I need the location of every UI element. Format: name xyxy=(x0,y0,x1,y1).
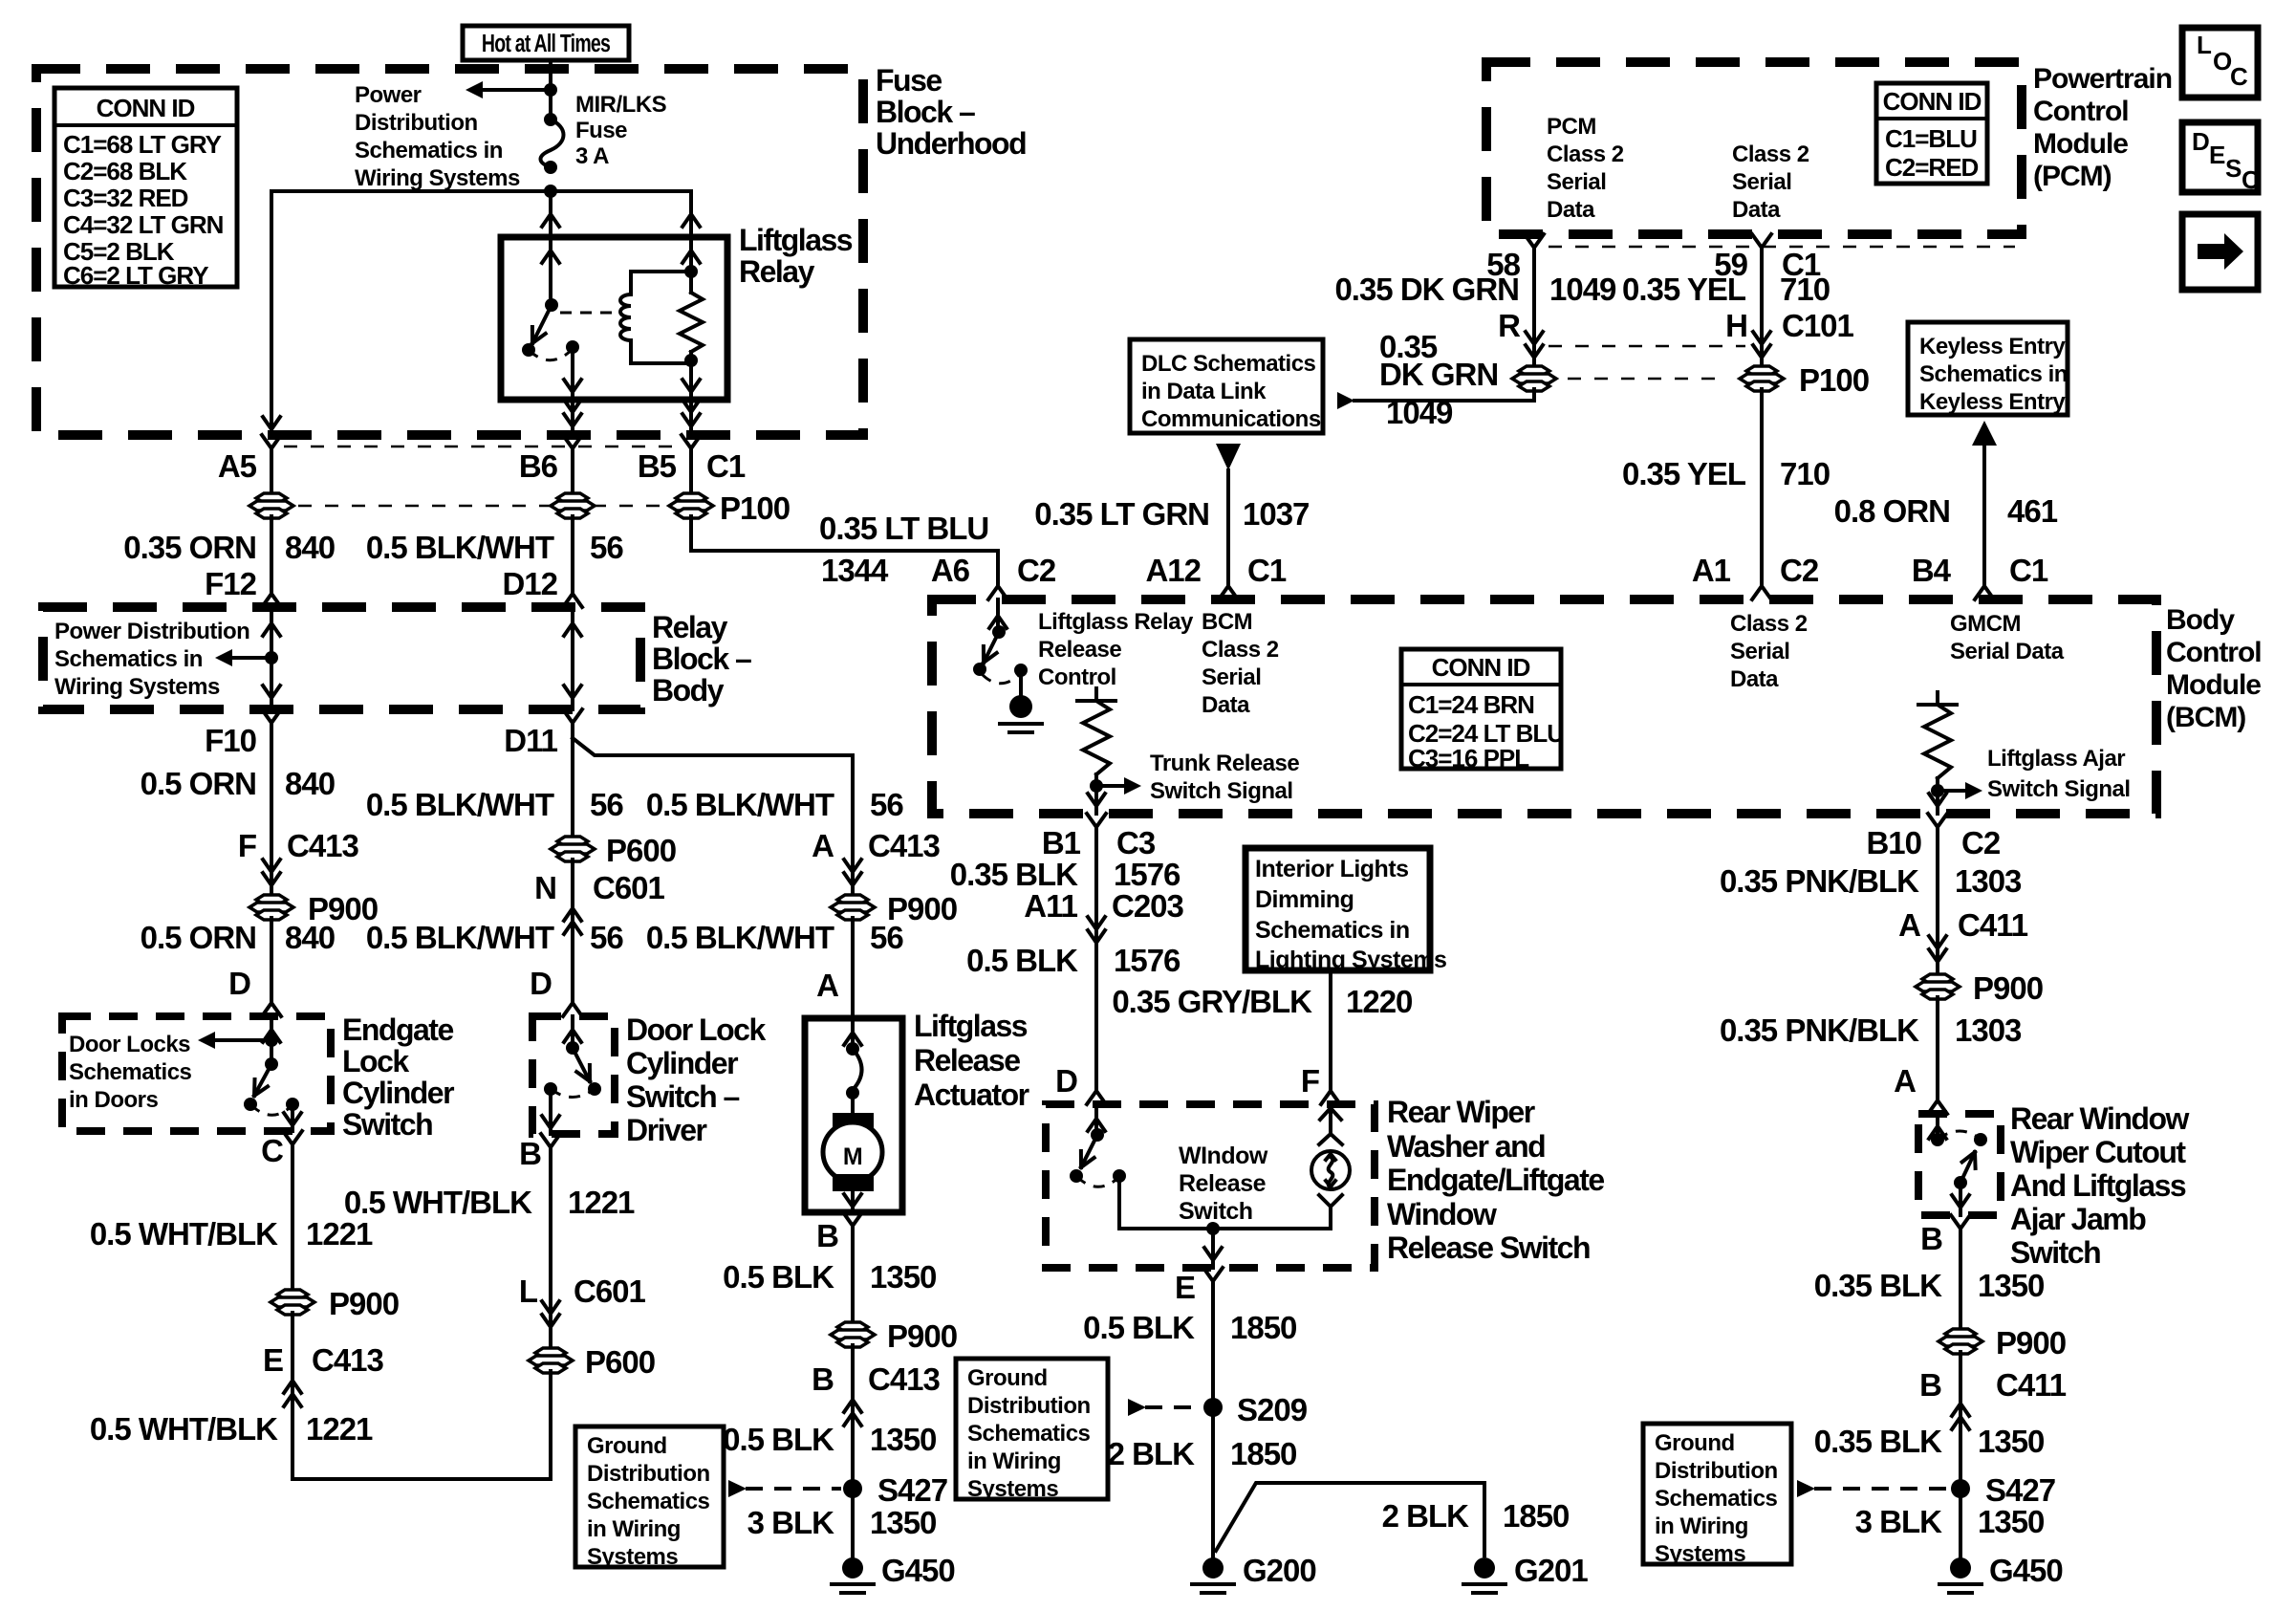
wire: P900 to jamb switch pin A xyxy=(1936,997,1939,1085)
svg-text:Block –: Block – xyxy=(652,642,751,676)
svg-text:Wiring Systems: Wiring Systems xyxy=(355,165,520,191)
module box: Powertrain Control Module PCM (dashed) xyxy=(1486,62,2022,234)
svg-text:1576: 1576 xyxy=(1114,857,1180,892)
svg-text:1221: 1221 xyxy=(306,1411,373,1447)
svg-text:P100: P100 xyxy=(720,490,790,526)
wire: P600 down to junction xyxy=(549,1371,552,1479)
svg-text:L: L xyxy=(2197,31,2212,59)
svg-text:0.5 BLK/WHT: 0.5 BLK/WHT xyxy=(366,920,554,955)
svg-text:C411: C411 xyxy=(1958,907,2028,943)
jamb switch dashed throw arc xyxy=(1938,1131,1979,1140)
svg-text:Data: Data xyxy=(1730,666,1779,692)
svg-text:A1: A1 xyxy=(1692,553,1731,588)
svg-text:1303: 1303 xyxy=(1955,1012,2022,1048)
svg-text:F12: F12 xyxy=(205,566,257,601)
motor M of liftglass release actuator xyxy=(851,1093,855,1113)
svg-text:Ajar Jamb: Ajar Jamb xyxy=(2010,1202,2146,1236)
svg-text:B4: B4 xyxy=(1912,553,1952,588)
wire: branch down to relay left pin xyxy=(549,191,552,234)
svg-text:3 A: 3 A xyxy=(575,143,609,169)
svg-text:A11: A11 xyxy=(1024,888,1077,924)
svg-text:Door Lock: Door Lock xyxy=(626,1012,766,1047)
svg-text:0.35 DK GRN: 0.35 DK GRN xyxy=(1334,272,1519,307)
pin F10 out of relay block xyxy=(262,709,281,738)
svg-text:C4=32 LT GRN: C4=32 LT GRN xyxy=(63,210,224,239)
svg-text:DLC Schematics: DLC Schematics xyxy=(1141,351,1316,377)
svg-text:Serial: Serial xyxy=(1202,664,1261,690)
wire: 0.35 LT BLU 1344 from P100 C1 to BCM A6 xyxy=(691,516,998,572)
svg-text:C2: C2 xyxy=(1017,553,1056,588)
svg-text:0.5 WHT/BLK: 0.5 WHT/BLK xyxy=(344,1185,532,1220)
svg-text:C2: C2 xyxy=(1780,553,1819,588)
relay internal resistor R xyxy=(689,237,693,272)
svg-text:CONN ID: CONN ID xyxy=(1432,653,1530,682)
svg-text:C413: C413 xyxy=(312,1342,384,1378)
svg-text:56: 56 xyxy=(870,787,903,822)
svg-text:Powertrain: Powertrain xyxy=(2033,63,2172,95)
pin 58 of PCM xyxy=(1525,234,1544,263)
svg-text:C1: C1 xyxy=(2009,553,2048,588)
svg-text:Switch Signal: Switch Signal xyxy=(1150,778,1293,804)
svg-text:G450: G450 xyxy=(881,1553,955,1588)
svg-text:B6: B6 xyxy=(519,448,558,484)
svg-text:Liftglass: Liftglass xyxy=(739,223,853,257)
svg-text:1350: 1350 xyxy=(870,1422,936,1457)
pin D into door lock cylinder switch driver xyxy=(563,988,582,1016)
wire: endgate C to P900 xyxy=(291,1160,294,1292)
wire: D12-D11 through relay block xyxy=(571,607,574,709)
svg-text:1350: 1350 xyxy=(1978,1268,2044,1303)
svg-text:GMCM: GMCM xyxy=(1950,611,2021,637)
pin 59 / C1 of PCM xyxy=(1752,234,1771,263)
svg-text:Underhood: Underhood xyxy=(876,126,1026,161)
junction box: Ground Distribution Schematics (right) xyxy=(1643,1424,1791,1564)
svg-text:Endgate: Endgate xyxy=(342,1012,453,1047)
svg-text:C413: C413 xyxy=(868,1361,941,1397)
svg-text:P900: P900 xyxy=(1996,1325,2066,1361)
wire: D11 to P600 xyxy=(571,738,574,838)
svg-text:C601: C601 xyxy=(593,870,665,905)
wire: B10 to P900 xyxy=(1936,842,1939,976)
relay coil L xyxy=(631,272,691,363)
actuator internal feed xyxy=(851,1018,855,1046)
driver switch movable arm xyxy=(576,1072,590,1081)
wire: blk/wht 56 down to relay block D12 xyxy=(571,516,574,593)
svg-text:0.5 BLK: 0.5 BLK xyxy=(1083,1310,1195,1345)
wire: into endgate switch xyxy=(270,1016,273,1064)
wire: switch output to junction and lamp branch xyxy=(1119,1176,1331,1229)
module box: Body Control Module BCM (dashed) xyxy=(932,599,2156,814)
BCM switch right contact xyxy=(1014,664,1028,677)
svg-text:1350: 1350 xyxy=(870,1259,936,1295)
switch box: Door Lock Cylinder Switch - Driver (dashed) xyxy=(532,1016,615,1134)
svg-text:Schematics: Schematics xyxy=(69,1059,192,1085)
pin A12 into BCM xyxy=(1219,571,1238,599)
svg-text:Door Locks: Door Locks xyxy=(69,1032,190,1057)
pin C out of endgate switch xyxy=(283,1131,302,1160)
ground G450 (left) xyxy=(842,1557,863,1578)
svg-text:L: L xyxy=(519,1274,538,1309)
svg-text:Serial: Serial xyxy=(1732,169,1791,195)
svg-text:0.35 BLK: 0.35 BLK xyxy=(1814,1424,1942,1459)
pin A1 into BCM xyxy=(1752,571,1771,599)
svg-text:Ground: Ground xyxy=(1655,1430,1735,1456)
svg-text:0.5 BLK: 0.5 BLK xyxy=(723,1422,834,1457)
wire: branch down to A5 xyxy=(270,191,273,432)
wire: BCM B4 up to keyless entry (0.8 ORN 461) xyxy=(1982,442,1986,572)
svg-text:Ground: Ground xyxy=(967,1365,1048,1391)
driver switch left contact to pin B xyxy=(544,1082,557,1096)
svg-text:B: B xyxy=(812,1361,834,1397)
svg-text:(PCM): (PCM) xyxy=(2033,161,2112,192)
wire: 0.35 DK GRN 1049 to DLC schematics xyxy=(1354,389,1534,401)
svg-text:0.35 PNK/BLK: 0.35 PNK/BLK xyxy=(1720,863,1919,899)
svg-text:Cylinder: Cylinder xyxy=(342,1076,454,1110)
svg-text:(BCM): (BCM) xyxy=(2166,702,2245,733)
svg-text:0.5 BLK/WHT: 0.5 BLK/WHT xyxy=(366,787,554,822)
relay switch NC contact xyxy=(522,343,535,357)
svg-text:C413: C413 xyxy=(287,828,359,863)
svg-text:A5: A5 xyxy=(218,448,257,484)
fuse F: MIR/LKS Fuse 3A xyxy=(544,113,557,126)
svg-text:Washer and: Washer and xyxy=(1387,1129,1545,1164)
svg-text:Ground: Ground xyxy=(587,1433,667,1459)
svg-text:Serial: Serial xyxy=(1730,639,1789,664)
svg-text:56: 56 xyxy=(590,920,623,955)
svg-text:Data: Data xyxy=(1732,197,1781,223)
table: CONN ID (fuse block) xyxy=(54,88,237,287)
lamp branch of window release switch xyxy=(1319,1195,1342,1229)
svg-text:0.35 YEL: 0.35 YEL xyxy=(1622,456,1746,491)
svg-text:E: E xyxy=(2209,141,2225,169)
svg-text:Class 2: Class 2 xyxy=(1732,142,1809,167)
relay switch pivot xyxy=(545,298,558,312)
junction node on hot feed xyxy=(544,83,557,97)
junction box: Interior Lights Dimming Schematics in Lighting Systems xyxy=(1245,848,1430,970)
motor box: Liftglass Release Actuator xyxy=(805,1018,902,1212)
connector P900 (jamb ground) xyxy=(1945,1329,1976,1339)
svg-text:Module: Module xyxy=(2166,669,2261,701)
junction box: Ground Distribution Schematics (left) xyxy=(575,1426,724,1567)
svg-text:Keyless Entry: Keyless Entry xyxy=(1919,389,2066,415)
svg-text:C3: C3 xyxy=(1116,825,1156,860)
svg-text:S209: S209 xyxy=(1237,1392,1308,1427)
svg-text:Dimming: Dimming xyxy=(1255,886,1354,913)
svg-text:Distribution: Distribution xyxy=(1655,1458,1778,1484)
svg-text:Control: Control xyxy=(1038,664,1116,690)
svg-text:0.35 LT GRN: 0.35 LT GRN xyxy=(1034,496,1209,532)
svg-text:Systems: Systems xyxy=(587,1544,678,1570)
svg-text:Distribution: Distribution xyxy=(355,110,478,136)
jamb switch pivot xyxy=(1954,1176,1967,1189)
ground G201 xyxy=(1474,1557,1495,1578)
connector face C1 of underhood fuse block (dashed) xyxy=(284,446,679,448)
svg-text:C3=16 PPL: C3=16 PPL xyxy=(1408,744,1529,773)
svg-text:1037: 1037 xyxy=(1243,496,1309,532)
svg-text:2 BLK: 2 BLK xyxy=(1108,1436,1196,1471)
svg-text:Liftglass Ajar: Liftglass Ajar xyxy=(1987,746,2125,772)
module box: Relay Block - Body (dashed) xyxy=(43,607,640,709)
svg-text:BCM: BCM xyxy=(1202,609,1252,635)
BCM internal: liftglass relay release control switch xyxy=(996,599,1000,632)
svg-text:1350: 1350 xyxy=(870,1505,936,1540)
pin B1 / C3 out of BCM xyxy=(1087,814,1106,842)
svg-text:Keyless Entry: Keyless Entry xyxy=(1919,334,2066,359)
wire: junction down to pin E xyxy=(1211,1229,1215,1268)
wire: to P900 (actuator) xyxy=(851,755,855,897)
svg-text:Schematics: Schematics xyxy=(587,1489,710,1514)
junction in window release switch xyxy=(1206,1222,1220,1235)
wire: P600 to door lock cylinder switch driver xyxy=(571,860,574,1002)
connector P600 xyxy=(557,837,588,846)
wire: P900 to S427 (right) xyxy=(1959,1352,1962,1566)
pin A5 xyxy=(262,435,281,464)
svg-text:A: A xyxy=(1894,1063,1916,1099)
pass-through connector face dashed line at P100 row xyxy=(271,505,691,508)
svg-text:0.5 WHT/BLK: 0.5 WHT/BLK xyxy=(90,1411,278,1447)
svg-text:CONN ID: CONN ID xyxy=(97,94,195,122)
PCM connector face dashed line xyxy=(1549,246,2015,249)
svg-text:P900: P900 xyxy=(329,1286,399,1321)
wire: resistor down to BCM pin B10 xyxy=(1936,791,1939,814)
svg-text:Module: Module xyxy=(2033,128,2128,160)
svg-text:Relay: Relay xyxy=(739,254,815,289)
driver switch pivot xyxy=(566,1041,579,1055)
wire: orange 840 down to relay block F12 xyxy=(270,516,273,593)
pin B4 into BCM xyxy=(1975,571,1994,599)
table: CONN ID (PCM) xyxy=(1876,83,1987,184)
svg-text:0.5 BLK: 0.5 BLK xyxy=(723,1259,834,1295)
wire: relay NO contact to output xyxy=(571,347,574,400)
endgate switch movable arm xyxy=(252,1079,257,1096)
svg-text:Systems: Systems xyxy=(1655,1541,1745,1567)
jamb switch movable arm xyxy=(1973,1152,1978,1168)
svg-text:0.5 BLK: 0.5 BLK xyxy=(966,943,1078,978)
window release switch left contact xyxy=(1070,1169,1083,1183)
pin D12 into relay block xyxy=(563,578,582,607)
wire: relay coil output to B5 xyxy=(689,400,693,432)
relay switch dashed throw arc xyxy=(529,349,573,360)
svg-text:C6=2 LT GRY: C6=2 LT GRY xyxy=(63,261,208,290)
wire into driver switch xyxy=(571,1016,574,1048)
svg-text:56: 56 xyxy=(870,920,903,955)
svg-text:Class 2: Class 2 xyxy=(1730,611,1808,637)
svg-text:Data: Data xyxy=(1202,692,1250,718)
svg-text:56: 56 xyxy=(590,787,623,822)
svg-text:G200: G200 xyxy=(1243,1553,1316,1588)
pin D11 out of relay block xyxy=(563,709,582,738)
svg-text:Class 2: Class 2 xyxy=(1547,142,1624,167)
svg-text:C411: C411 xyxy=(1996,1367,2067,1403)
wire: interior lights to wiper switch pin F (0.35 GRY/BLK 1220) xyxy=(1329,970,1332,1076)
wire: branch down to relay coil pin xyxy=(689,191,693,234)
jamb switch left contact xyxy=(1931,1133,1944,1146)
wire: arrow to power distribution schematics xyxy=(483,88,551,92)
connector P100 splice on blk/wht wire xyxy=(557,493,588,503)
svg-text:C2: C2 xyxy=(1961,825,2001,860)
svg-text:N: N xyxy=(534,870,556,905)
junction box: Keyless Entry Schematics in Keyless Entry xyxy=(1908,322,2068,415)
wire: P100 H down to BCM A1 (0.35 YEL 710) xyxy=(1760,389,1764,572)
connector P900 (liftglass ajar) xyxy=(1922,974,1953,984)
svg-text:F: F xyxy=(238,828,256,863)
wire: PCM 58 to C101 R xyxy=(1532,263,1536,368)
svg-text:C1=68 LT GRY: C1=68 LT GRY xyxy=(63,130,222,159)
svg-text:S427: S427 xyxy=(1985,1472,2055,1508)
svg-text:B1: B1 xyxy=(1042,825,1081,860)
wire: F10 to C413 pin F xyxy=(270,738,273,860)
svg-text:Rear Wiper: Rear Wiper xyxy=(1387,1095,1535,1129)
svg-text:Cylinder: Cylinder xyxy=(626,1046,738,1080)
svg-text:C2=68 BLK: C2=68 BLK xyxy=(63,157,187,185)
svg-text:in Doors: in Doors xyxy=(69,1087,158,1113)
wire: DLC box to BCM A12 (0.35 LT GRN 1037) xyxy=(1216,444,1241,470)
svg-text:C1=24 BRN: C1=24 BRN xyxy=(1408,690,1534,719)
svg-text:Fuse: Fuse xyxy=(575,118,627,143)
svg-text:1350: 1350 xyxy=(1978,1504,2044,1539)
endgate switch left contact xyxy=(244,1098,257,1111)
svg-text:Schematics in: Schematics in xyxy=(1255,917,1410,944)
connector P100 splice on lt blu wire xyxy=(676,493,706,503)
svg-text:Endgate/Liftgate: Endgate/Liftgate xyxy=(1387,1163,1604,1197)
endgate switch dashed throw arc xyxy=(250,1104,292,1115)
svg-text:0.5 BLK/WHT: 0.5 BLK/WHT xyxy=(366,530,554,565)
wire: B6 to P100 xyxy=(571,464,574,495)
BCM internal ground xyxy=(1019,670,1023,694)
table: CONN ID (BCM) xyxy=(1401,649,1561,769)
svg-text:B: B xyxy=(1920,1221,1942,1256)
window release switch pivot xyxy=(1091,1128,1104,1142)
wire: B5 to P100 xyxy=(689,464,693,495)
dashed ground distribution tap to S209 xyxy=(1145,1405,1201,1409)
svg-text:M: M xyxy=(843,1143,862,1170)
svg-text:D: D xyxy=(1055,1063,1077,1099)
wire: P900 to S427 xyxy=(851,1345,855,1566)
wire: hot feed from Hot at All Times into fuse block xyxy=(549,60,552,120)
connector face C101 dashed xyxy=(1549,345,1745,348)
svg-text:0.35 GRY/BLK: 0.35 GRY/BLK xyxy=(1112,984,1312,1019)
wire: P900 to endgate switch pin D xyxy=(270,918,273,1002)
wire: motor to actuator pin B xyxy=(851,1191,855,1212)
svg-text:A: A xyxy=(812,828,834,863)
svg-text:C2=RED: C2=RED xyxy=(1885,153,1979,182)
svg-text:E: E xyxy=(263,1342,283,1378)
svg-text:840: 840 xyxy=(285,920,335,955)
svg-text:0.35 BLK: 0.35 BLK xyxy=(950,857,1078,892)
BCM switch dashed throw arc xyxy=(982,674,1019,684)
svg-text:And Liftglass: And Liftglass xyxy=(2010,1168,2186,1203)
svg-text:C601: C601 xyxy=(574,1274,646,1309)
splice S427 (right) xyxy=(1951,1479,1970,1498)
svg-text:Release: Release xyxy=(1038,637,1121,663)
icon box: LOC xyxy=(2182,28,2258,98)
switch box: Rear Window Wiper Cutout And Liftglass Ajar Jamb Switch (dashed) xyxy=(1918,1114,2001,1215)
pin F12 into relay block xyxy=(262,578,281,607)
svg-text:Interior Lights: Interior Lights xyxy=(1255,856,1409,882)
svg-text:1221: 1221 xyxy=(568,1185,635,1220)
svg-text:D: D xyxy=(228,966,250,1001)
svg-text:Switch –: Switch – xyxy=(626,1079,740,1114)
connector P100 (H) xyxy=(1746,366,1777,376)
svg-text:MIR/LKS: MIR/LKS xyxy=(575,92,667,118)
svg-text:F: F xyxy=(1301,1063,1319,1099)
svg-text:A: A xyxy=(816,968,838,1003)
svg-text:P100: P100 xyxy=(1799,362,1869,398)
svg-text:Hot at All Times: Hot at All Times xyxy=(482,29,610,56)
wire: resistor down to BCM pin B1 xyxy=(1094,786,1098,814)
relay switch common feed xyxy=(549,237,552,305)
splice S427 (left) xyxy=(843,1479,862,1498)
svg-text:C: C xyxy=(261,1133,283,1168)
svg-text:Wiring Systems: Wiring Systems xyxy=(54,674,220,700)
svg-text:Schematics: Schematics xyxy=(1655,1486,1778,1512)
splice S209 xyxy=(1203,1398,1223,1417)
svg-text:E: E xyxy=(1175,1270,1195,1305)
svg-text:1220: 1220 xyxy=(1346,984,1412,1019)
svg-text:1303: 1303 xyxy=(1955,863,2022,899)
pin B6 xyxy=(563,435,582,464)
pin F into window release switch xyxy=(1321,1076,1340,1104)
wire: D11 fork to liftglass release actuator xyxy=(573,738,853,755)
connector P100 (R) xyxy=(1519,366,1549,376)
svg-text:P600: P600 xyxy=(585,1344,655,1380)
junction box: Ground Distribution Schematics (center) xyxy=(956,1359,1108,1499)
svg-text:P600: P600 xyxy=(606,833,676,868)
pin E out of window release switch xyxy=(1203,1268,1223,1296)
pin D into window release switch xyxy=(1087,1076,1106,1104)
svg-text:P900: P900 xyxy=(887,1318,957,1354)
svg-text:0.35 YEL: 0.35 YEL xyxy=(1622,272,1746,307)
svg-text:Liftglass: Liftglass xyxy=(914,1009,1028,1043)
svg-text:C1: C1 xyxy=(706,448,746,484)
svg-text:Schematics in: Schematics in xyxy=(1919,361,2068,387)
svg-text:Body: Body xyxy=(2166,604,2235,636)
svg-text:461: 461 xyxy=(2007,493,2058,529)
junction box: DLC Schematics in Data Link Communications xyxy=(1130,339,1323,433)
connector P100 splice on orange wire xyxy=(256,493,287,503)
icon box: DESC xyxy=(2182,122,2258,192)
svg-text:G201: G201 xyxy=(1514,1553,1588,1588)
svg-text:R: R xyxy=(1498,308,1521,343)
window release switch dashed throw arc xyxy=(1076,1176,1119,1186)
svg-text:in Data Link: in Data Link xyxy=(1141,379,1267,404)
svg-text:Rear Window: Rear Window xyxy=(2010,1101,2190,1136)
relay K: Liftglass Relay box xyxy=(501,237,727,400)
node: fuse output junction xyxy=(544,185,557,198)
svg-text:0.5 BLK/WHT: 0.5 BLK/WHT xyxy=(646,787,834,822)
svg-text:B5: B5 xyxy=(638,448,677,484)
wire: jamb switch pivot to pin B xyxy=(1959,1183,1962,1215)
svg-text:Schematics in: Schematics in xyxy=(355,138,503,163)
svg-text:in Wiring: in Wiring xyxy=(967,1448,1061,1474)
svg-text:Relay: Relay xyxy=(652,610,728,644)
svg-text:0.8 ORN: 0.8 ORN xyxy=(1834,493,1950,529)
pin A6 into BCM xyxy=(988,571,1007,599)
svg-text:56: 56 xyxy=(590,530,623,565)
wire: PCM 59 to C101 H xyxy=(1760,263,1764,368)
BCM internal resistor: trunk release switch signal xyxy=(1094,688,1098,701)
svg-text:1350: 1350 xyxy=(1978,1424,2044,1459)
wire: driver switch B to P600 xyxy=(549,1163,552,1350)
relay switch movable arm xyxy=(531,327,534,343)
svg-text:0.5 BLK/WHT: 0.5 BLK/WHT xyxy=(646,920,834,955)
svg-text:B: B xyxy=(816,1218,838,1253)
svg-text:Distribution: Distribution xyxy=(967,1393,1091,1419)
jamb switch right contact xyxy=(1974,1133,1987,1146)
svg-text:1850: 1850 xyxy=(1503,1498,1569,1534)
svg-text:Release: Release xyxy=(1179,1170,1267,1197)
wire: branch to G201 xyxy=(1216,1483,1484,1556)
